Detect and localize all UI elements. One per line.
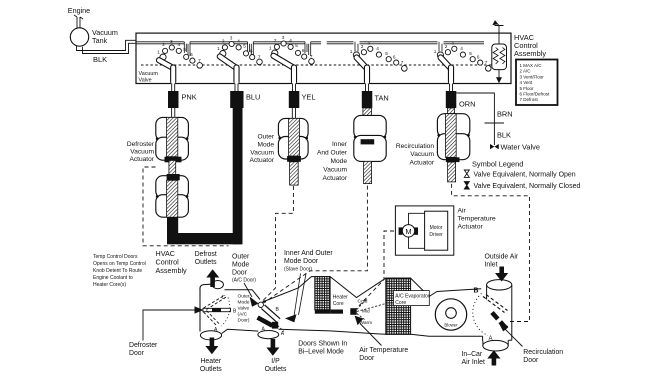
- inner door leader lines: [294, 274, 301, 320]
- svg-text:A/C Evaporator: A/C Evaporator: [395, 293, 430, 299]
- svg-text:BRN: BRN: [497, 110, 513, 119]
- motor M wires: [409, 213, 425, 248]
- YEL dashed control link: [263, 186, 294, 301]
- defroster actuator rod from PNK: [172, 108, 175, 118]
- svg-text:YEL: YEL: [302, 93, 316, 102]
- svg-text:4: 4: [376, 46, 379, 51]
- svg-text:Cold: Cold: [358, 299, 368, 305]
- svg-text:2: 2: [361, 44, 364, 49]
- svg-text:2: 2: [162, 42, 165, 47]
- svg-text:4: 4: [289, 38, 292, 43]
- svg-text:Temp Control Doors: Temp Control Doors: [93, 254, 138, 260]
- svg-text:(Slave Door): (Slave Door): [284, 267, 312, 273]
- connector stubs below valve: [172, 84, 453, 92]
- svg-text:Door: Door: [523, 357, 539, 364]
- in-car air inlet tube: [483, 340, 508, 345]
- A/C evaporator core: [386, 278, 411, 334]
- svg-text:6: 6: [477, 55, 480, 60]
- I/P outlet neck: [258, 331, 279, 339]
- svg-text:5 Floor: 5 Floor: [520, 86, 535, 91]
- svg-text:4: 4: [177, 42, 180, 47]
- recirculation actuator rod from ORN: [448, 108, 455, 115]
- svg-text:Outer: Outer: [258, 134, 275, 141]
- svg-text:Bi–Level Mode: Bi–Level Mode: [298, 349, 344, 356]
- vent to atmosphere symbol: [493, 21, 503, 26]
- svg-text:Vacuum: Vacuum: [323, 166, 347, 173]
- motor dashed control link: [355, 231, 401, 310]
- svg-text:2 A/C: 2 A/C: [520, 69, 532, 74]
- svg-text:Inner And Outer: Inner And Outer: [284, 250, 333, 257]
- svg-text:1: 1: [269, 45, 272, 50]
- outer mode door (white): [263, 307, 279, 321]
- svg-text:7: 7: [198, 58, 201, 63]
- valve section 2 (BLU): [217, 35, 262, 83]
- recirc door leader arrow: [504, 328, 523, 347]
- svg-text:Outside Air: Outside Air: [485, 254, 519, 261]
- defroster vacuum actuator A1 upper bellows: [156, 117, 189, 162]
- normally closed valve symbol: [464, 182, 469, 189]
- outer mode door leader arrow: [244, 283, 252, 297]
- svg-text:Mid: Mid: [362, 309, 370, 315]
- svg-text:Core: Core: [333, 301, 344, 307]
- svg-text:Air Temperature: Air Temperature: [359, 347, 408, 354]
- svg-text:6: 6: [250, 49, 253, 54]
- svg-text:Actuator: Actuator: [129, 156, 154, 163]
- svg-text:Actuator: Actuator: [249, 157, 274, 164]
- air temp door leader arrow: [360, 324, 382, 346]
- svg-text:Inner: Inner: [332, 141, 348, 148]
- svg-text:7 Defrost: 7 Defrost: [520, 97, 539, 102]
- svg-text:3 Vent/Floor: 3 Vent/Floor: [520, 74, 545, 79]
- svg-text:BLK: BLK: [497, 131, 511, 140]
- svg-text:B: B: [473, 288, 478, 295]
- svg-text:Actuator: Actuator: [322, 175, 347, 182]
- svg-text:Inlet: Inlet: [485, 262, 498, 269]
- svg-text:6: 6: [190, 52, 193, 57]
- svg-text:Outlets: Outlets: [265, 366, 287, 373]
- outer mode actuator stem: [290, 162, 299, 185]
- normally open valve symbol: [464, 170, 469, 177]
- svg-text:Engine Coolant to: Engine Coolant to: [93, 275, 133, 281]
- temp door positions dashed: [357, 300, 386, 320]
- restrictor component: [492, 44, 507, 70]
- defrost outlet neck: [212, 281, 223, 289]
- svg-text:Heater: Heater: [333, 295, 348, 301]
- svg-text:And Outer: And Outer: [317, 150, 348, 157]
- recirculation actuator stem: [448, 162, 456, 182]
- valve section 5 (ORN): [434, 40, 491, 82]
- svg-text:7: 7: [401, 60, 404, 65]
- recirculation dashed control link: [452, 184, 530, 322]
- vent line through restrictor: [498, 26, 500, 46]
- svg-text:Mode: Mode: [258, 141, 275, 148]
- inner and outer mode vacuum actuator A3: [354, 115, 386, 161]
- svg-text:Outlets: Outlets: [200, 366, 222, 373]
- outside air inlet tube: [487, 285, 512, 340]
- svg-text:5: 5: [183, 47, 186, 52]
- svg-text:7: 7: [310, 54, 313, 59]
- svg-text:Outer: Outer: [232, 254, 250, 261]
- motor driver box: [425, 211, 448, 250]
- svg-text:7: 7: [485, 60, 488, 65]
- svg-text:Valve Equivalent, Normally Clo: Valve Equivalent, Normally Closed: [474, 183, 581, 190]
- recirc dotted travel arc: [473, 294, 488, 336]
- svg-text:Valve: Valve: [139, 78, 152, 84]
- outer mode actuator rod from YEL: [292, 108, 295, 118]
- svg-text:Blower: Blower: [444, 323, 458, 328]
- svg-text:Air Inlet: Air Inlet: [462, 359, 485, 366]
- I/P arrow: [266, 339, 279, 356]
- duct bottom contour: [222, 329, 259, 333]
- svg-text:Defroster: Defroster: [127, 141, 155, 148]
- svg-text:1: 1: [157, 49, 160, 54]
- svg-text:6: 6: [302, 48, 305, 53]
- valve section 1 (PNK): [157, 39, 202, 83]
- svg-text:PNK: PNK: [182, 93, 197, 102]
- svg-text:Recirculation: Recirculation: [523, 349, 563, 356]
- svg-text:ORN: ORN: [459, 100, 475, 109]
- svg-text:Vacuum: Vacuum: [250, 149, 274, 156]
- svg-text:Vacuum: Vacuum: [410, 151, 434, 158]
- wire BRN/BLK to water valve: [456, 93, 494, 145]
- svg-text:BLU: BLU: [246, 93, 260, 102]
- svg-text:Assembly: Assembly: [514, 49, 546, 58]
- svg-text:Heater: Heater: [200, 358, 221, 365]
- svg-text:A: A: [488, 336, 492, 342]
- svg-text:Mode: Mode: [238, 300, 250, 306]
- svg-text:Symbol Legend: Symbol Legend: [472, 160, 523, 169]
- svg-text:Opens on Temp Control: Opens on Temp Control: [93, 261, 146, 267]
- defroster actuator lower port black: [167, 217, 178, 237]
- svg-text:Air: Air: [458, 208, 467, 215]
- svg-text:Motor: Motor: [430, 225, 443, 231]
- duct top contour: [200, 284, 211, 331]
- recirculation door (solid): [492, 313, 498, 320]
- door travel dotted arc: [222, 298, 230, 327]
- svg-text:I/P: I/P: [271, 358, 280, 365]
- mode legend box: [516, 60, 558, 106]
- valve section 3 (YEL): [269, 35, 314, 83]
- svg-text:5: 5: [243, 44, 246, 49]
- motor M: [399, 227, 403, 234]
- outside air arrow: [495, 267, 508, 282]
- svg-text:Door: Door: [129, 350, 145, 357]
- svg-text:Mode: Mode: [331, 158, 348, 165]
- svg-text:4 Vent: 4 Vent: [520, 80, 534, 85]
- air temperature actuator box U2: [395, 206, 453, 255]
- svg-text:Doors Shown In: Doors Shown In: [298, 341, 347, 348]
- svg-text:Temperature: Temperature: [458, 216, 496, 223]
- svg-text:Actuator: Actuator: [458, 224, 484, 231]
- vacuum valve box U1: [136, 33, 511, 83]
- svg-text:Outer: Outer: [238, 294, 250, 300]
- defroster vacuum actuator A1 lower bellows: [156, 174, 189, 217]
- connector PNK: [168, 91, 179, 108]
- svg-text:Assembly: Assembly: [156, 266, 188, 275]
- air temperature door: [330, 310, 343, 314]
- svg-text:5: 5: [295, 43, 298, 48]
- outer mode vacuum actuator A2: [278, 118, 308, 161]
- dashed position line inside valve: [141, 64, 497, 66]
- svg-text:1: 1: [350, 49, 353, 54]
- inner/outer mode actuator rod from TAN: [363, 108, 372, 139]
- svg-text:3: 3: [367, 40, 370, 45]
- connector BLU: [230, 91, 243, 108]
- recirculation vacuum actuator A4: [437, 114, 469, 162]
- blower: [435, 299, 466, 330]
- svg-text:Defrost: Defrost: [195, 251, 217, 258]
- svg-text:Driver: Driver: [429, 232, 443, 238]
- svg-text:In–Car: In–Car: [462, 351, 483, 358]
- vacuum tank T1: [70, 28, 88, 46]
- svg-text:6: 6: [393, 55, 396, 60]
- door C position dashed: [204, 295, 228, 310]
- vacuum manifold (double line): [136, 42, 484, 44]
- svg-text:2: 2: [222, 39, 225, 44]
- svg-text:1: 1: [217, 46, 220, 51]
- svg-text:4: 4: [237, 39, 240, 44]
- svg-text:Recirculation: Recirculation: [396, 143, 434, 150]
- inner mode door (black): [258, 318, 273, 326]
- svg-text:Engine: Engine: [68, 6, 90, 15]
- svg-text:Knob Detent To Route: Knob Detent To Route: [93, 268, 142, 274]
- svg-text:TAN: TAN: [375, 94, 389, 103]
- connector TAN: [362, 91, 373, 108]
- pipe tank to valve (double line): [77, 40, 137, 53]
- connector YEL: [289, 91, 300, 108]
- svg-text:Valve: Valve: [238, 306, 250, 312]
- svg-text:3: 3: [282, 35, 285, 40]
- svg-text:Tank: Tank: [92, 36, 108, 45]
- svg-text:Heater Core(s): Heater Core(s): [93, 282, 126, 288]
- svg-text:4: 4: [460, 46, 463, 51]
- engine stub wire: [74, 15, 83, 28]
- TAN dashed control link: [264, 186, 368, 303]
- svg-text:3: 3: [451, 40, 454, 45]
- svg-text:5: 5: [385, 51, 388, 56]
- defroster door arrow: [143, 310, 195, 341]
- temp control note: [93, 254, 146, 288]
- svg-text:Outlets: Outlets: [195, 259, 217, 266]
- recirc housing right/bottom: [483, 336, 512, 341]
- in-car arrow: [487, 350, 500, 365]
- svg-text:BLK: BLK: [93, 55, 107, 64]
- svg-text:Vacuum: Vacuum: [130, 149, 154, 156]
- svg-text:Mode: Mode: [232, 262, 249, 269]
- heater core: [315, 277, 330, 310]
- outer mode valve pivot door: [203, 308, 231, 311]
- svg-text:Actuator: Actuator: [409, 159, 434, 166]
- arrowhead to box bottom: [496, 77, 502, 83]
- svg-text:3: 3: [170, 39, 173, 44]
- svg-text:Core: Core: [395, 300, 406, 306]
- svg-text:(A/C: (A/C: [238, 312, 248, 318]
- svg-text:Water Valve: Water Valve: [501, 143, 540, 152]
- svg-text:(A/C Door): (A/C Door): [232, 278, 256, 284]
- svg-text:Vacuum: Vacuum: [139, 71, 159, 77]
- water valve symbol: [490, 144, 499, 149]
- door A position dashed: [204, 311, 220, 327]
- heater arrow: [205, 338, 218, 355]
- svg-text:Defroster: Defroster: [129, 342, 158, 349]
- svg-text:Door): Door): [238, 318, 250, 324]
- svg-text:M: M: [405, 227, 411, 236]
- connector ORN: [446, 91, 457, 108]
- svg-text:7: 7: [258, 55, 261, 60]
- svg-text:Valve Equivalent, Normally Ope: Valve Equivalent, Normally Open: [474, 172, 576, 179]
- heater outlet neck: [200, 331, 221, 340]
- outer mode valve label: [238, 294, 250, 324]
- svg-text:1: 1: [434, 49, 437, 54]
- svg-text:Door: Door: [232, 270, 248, 277]
- dashed HVAC assembly boundary box: [143, 167, 229, 246]
- svg-text:2: 2: [274, 38, 277, 43]
- wire BLU thick run: [233, 106, 243, 244]
- defrost arrow: [206, 269, 219, 287]
- defroster actuator mid rod: [169, 160, 176, 175]
- recirc door open position (dashed): [483, 295, 508, 313]
- svg-text:Mode Door: Mode Door: [284, 258, 319, 265]
- valve section 4 (TAN): [350, 40, 407, 82]
- svg-text:C: C: [222, 295, 226, 301]
- svg-text:5: 5: [469, 51, 472, 56]
- svg-text:2: 2: [445, 44, 448, 49]
- R pivot: [258, 302, 263, 307]
- svg-text:6 Floor/Defrost: 6 Floor/Defrost: [520, 92, 551, 97]
- inner/outer mode actuator stem: [364, 161, 372, 183]
- svg-text:Door: Door: [359, 355, 375, 362]
- svg-text:1 MAX A/C: 1 MAX A/C: [520, 63, 543, 68]
- svg-text:3: 3: [230, 35, 233, 40]
